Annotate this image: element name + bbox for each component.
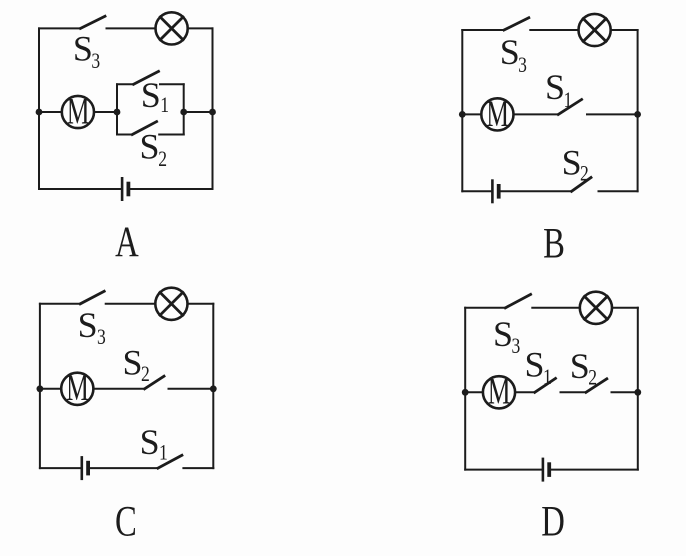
svg-text:1: 1 [159,441,168,465]
wire: box right vertical (A) [183,84,185,134]
svg-text:D: D [541,499,565,546]
wire: battery to A bottom-right [130,188,213,190]
motor M (D) [483,371,515,412]
wire: C bottom-left to battery [40,467,81,469]
switch S2 (A) blade, open [132,122,156,135]
svg-text:S: S [500,32,520,72]
switch S2 (C) blade, open [145,376,164,389]
label S3 (A) [73,29,100,74]
svg-text:2: 2 [580,162,589,186]
motor M (A) [62,91,94,132]
wire: C left vertical [39,304,41,468]
switch S3 (A) blade, open [81,16,106,28]
svg-text:S: S [73,29,93,69]
wire: D left vertical [464,308,466,470]
svg-text:3: 3 [97,325,106,349]
wire: A left vertical [38,28,40,189]
svg-text:2: 2 [158,147,167,171]
junction dot: A box right node [180,109,187,116]
wire: lamp to D top-right corner [612,307,638,309]
wire: box bottom rail right (A) [159,134,184,136]
wire: battery to switch S1 (C) [89,467,158,469]
wire: box bottom rail left (A) [117,134,132,136]
wire: A right vertical [212,28,214,189]
motor M (C) [61,368,93,409]
label S3 (B) [500,32,527,77]
label option A [115,219,139,266]
svg-text:S: S [545,67,565,107]
wire: S1 contact to switch S2 (D) [561,391,587,393]
wire: battery to D bottom-right [551,469,638,471]
switch S1 (C) blade, open [158,455,182,468]
battery (C) [82,457,88,478]
label option C [115,498,137,545]
switch S1 (D) blade, open [535,378,556,392]
wire: motor to switch S1 (D) [515,391,535,393]
junction dot: C left node [37,385,44,392]
wire: lamp to C top-right corner [188,303,214,305]
svg-text:S: S [140,126,160,166]
wire: C left node to motor [40,388,61,390]
svg-text:S: S [525,345,545,385]
svg-text:S: S [140,422,160,462]
svg-text:2: 2 [141,362,150,386]
battery (B) [492,181,498,202]
wire: S2 contact to D right node [612,391,638,393]
label S1 (D) [525,345,552,390]
wire: S3 contact to lamp (D) [532,307,580,309]
svg-text:1: 1 [564,88,573,112]
label S3 (D) [493,314,520,359]
lamp L (C) [155,288,187,320]
wire: S2 contact to C right node [169,388,214,390]
wire: D top-left to switch S3 [465,307,505,309]
svg-text:S: S [570,346,590,386]
motor M (B) [481,93,513,134]
svg-text:1: 1 [160,93,169,117]
switch S2 (B) blade, open [572,178,591,192]
svg-text:M: M [488,371,511,412]
wire: motor to switch S1 (B) [514,113,559,115]
svg-text:M: M [66,368,89,409]
svg-text:2: 2 [588,366,597,390]
wire: D bottom-left to battery [465,469,542,471]
wire: C right vertical [212,304,214,468]
wire: box right node to A right wire [184,111,213,113]
label option D [541,499,565,546]
label S1 (B) [545,67,572,113]
wire: B right vertical [637,30,639,191]
wire: box top rail left (A) [117,83,134,85]
wire: A left node to motor [39,111,62,113]
battery (A) [122,178,128,199]
svg-text:S: S [123,343,143,383]
switch S3 (D) blade, open [505,294,530,307]
wire: D right vertical [637,308,639,470]
switch S1 (B) blade, open [558,100,581,115]
switch S3 (B) blade, open [504,18,529,30]
lamp L (D) [580,292,612,324]
lamp L (A) [156,12,188,44]
wire: motor to parallel box (A) [94,111,117,113]
label S2 (C) [123,343,150,387]
wire: lamp to B top-right corner [611,29,638,31]
wire: A bottom-left to battery [39,188,121,190]
svg-text:3: 3 [512,334,521,358]
wire: B bottom-left to battery [462,190,491,192]
svg-text:C: C [115,498,137,545]
lamp L (B) [579,14,611,46]
svg-text:M: M [67,91,90,132]
wire: box top rail right (A) [160,83,184,85]
wire: S2 contact to B bottom-right [599,190,638,192]
wire: S1 contact to B right node [587,113,638,115]
junction dot: A box left node [114,109,121,116]
wire: S3 contact to lamp (B) [530,29,578,31]
label S1 (A) [141,75,169,117]
wire: box left vertical (A) [116,84,118,134]
wire: B left vertical [461,30,463,191]
svg-text:S: S [141,75,161,115]
wire: A top-left to switch S3 [39,27,81,29]
wire: motor to switch S2 (C) [93,388,144,390]
svg-text:B: B [543,220,565,267]
svg-text:S: S [78,305,98,345]
wire: lamp to A top-right corner [188,27,213,29]
wire: B top-left to switch S3 [462,29,504,31]
junction dot: B right node [634,111,641,118]
label S2 (D) [570,346,597,390]
svg-text:A: A [115,219,139,266]
switch S3 (C) blade, open [80,291,104,304]
junction dot: A left node [36,109,43,116]
wire: D left node to motor [465,391,483,393]
svg-text:M: M [486,93,509,134]
junction dot: C right node [210,385,217,392]
label option B [543,220,565,267]
wire: battery to switch S2 (B) [501,190,572,192]
wire: B left node to motor [462,113,481,115]
svg-text:S: S [493,314,513,354]
junction dot: D left node [462,389,469,396]
svg-text:3: 3 [518,53,527,77]
label S3 (C) [78,305,106,350]
junction dot: D right node [634,389,641,396]
wire: S1 contact to C bottom-right [183,467,213,469]
label S2 (B) [562,143,589,187]
svg-text:S: S [562,143,582,183]
wire: S3 contact to lamp (A) [107,27,156,29]
battery (D) [543,459,549,480]
junction dot: A right node [209,109,216,116]
svg-text:1: 1 [543,365,552,389]
label S1 (C) [140,422,168,465]
switch S1 (A) blade, open [134,71,159,84]
junction dot: B left node [459,111,466,118]
wire: C top-left to switch S3 [40,303,80,305]
label S2 (A) [140,126,167,171]
switch S2 (D) blade, open [586,379,607,393]
svg-text:3: 3 [91,49,100,73]
wire: S3 contact to lamp (C) [106,303,156,305]
